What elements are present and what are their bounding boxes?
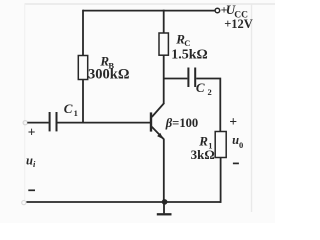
svg-text:0: 0 <box>239 140 243 150</box>
wire R1 down to bottom rail <box>220 158 222 203</box>
label C2 <box>196 80 212 97</box>
wire R_C up to top rail <box>163 10 165 33</box>
svg-text:300kΩ: 300kΩ <box>88 67 129 83</box>
wire input to C1 <box>27 122 49 124</box>
label +Ucc <box>221 2 249 20</box>
wire bottom rail <box>26 201 220 203</box>
wire from top rail down to R_B <box>82 10 84 56</box>
capacitor C2 <box>188 68 195 88</box>
svg-text:C: C <box>64 101 73 116</box>
input terminal upper (faint) <box>23 121 27 125</box>
label u_i <box>26 153 36 169</box>
input terminal lower (faint) <box>22 201 26 205</box>
svg-text:u: u <box>26 153 33 167</box>
svg-text:C: C <box>196 80 205 95</box>
polarity − (input) <box>28 189 35 191</box>
wire C1 to transistor base <box>58 122 151 124</box>
svg-text:2: 2 <box>208 87 212 97</box>
label R_C <box>175 32 190 48</box>
capacitor C1 <box>50 112 57 131</box>
terminal +Ucc <box>215 8 220 13</box>
svg-text:+12V: +12V <box>224 17 253 31</box>
svg-text:3kΩ: 3kΩ <box>191 147 215 162</box>
svg-text:+: + <box>28 124 36 139</box>
wire emitter down to bottom rail <box>163 139 165 202</box>
polarity − (output) <box>233 162 239 164</box>
junction dot emitter/ground node <box>162 199 168 205</box>
wire top rail to +Ucc terminal <box>83 10 215 12</box>
label R1 <box>198 134 212 151</box>
wire collector node to C2 <box>164 78 188 80</box>
svg-text:+: + <box>229 114 237 129</box>
svg-text:β=100: β=100 <box>165 116 199 130</box>
resistor R_B <box>78 56 87 80</box>
resistor R1 <box>215 132 226 158</box>
ground <box>157 202 172 214</box>
svg-text:1: 1 <box>74 108 78 118</box>
svg-text:1.5kΩ: 1.5kΩ <box>171 47 208 62</box>
label R_B <box>99 53 114 70</box>
wire from R_B down to base node <box>82 80 84 124</box>
wire collector up to R_C <box>163 55 165 103</box>
resistor R_C <box>159 33 168 55</box>
label u_0 <box>232 133 243 150</box>
transistor Q1 (NPN) <box>151 103 164 139</box>
wire C2 to output branch corner <box>196 79 220 132</box>
label C1 <box>64 101 78 118</box>
